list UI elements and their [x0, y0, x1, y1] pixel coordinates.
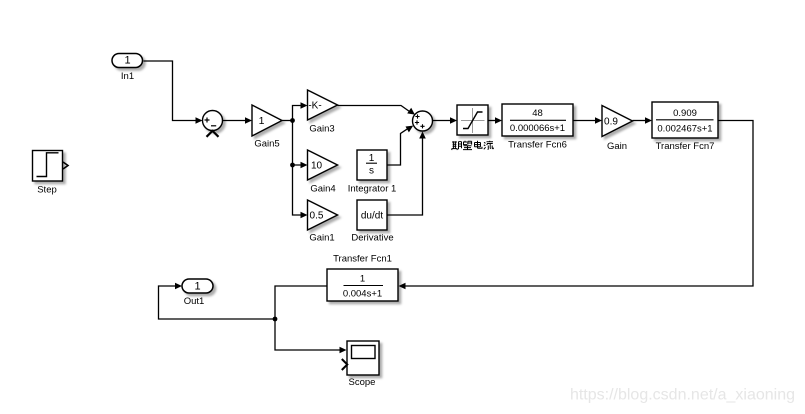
svg-text:10: 10 [311, 161, 323, 172]
svg-text:Transfer Fcn7: Transfer Fcn7 [656, 141, 715, 152]
svg-text:Gain1: Gain1 [309, 233, 334, 244]
svg-text:0.000066s+1: 0.000066s+1 [510, 123, 565, 134]
svg-text:1: 1 [259, 115, 265, 127]
svg-text:Gain: Gain [607, 141, 627, 152]
svg-text:1: 1 [369, 153, 375, 164]
svg-text:Transfer Fcn6: Transfer Fcn6 [508, 140, 567, 151]
svg-text:Gain3: Gain3 [309, 124, 334, 135]
svg-text:0.002467s+1: 0.002467s+1 [657, 124, 712, 135]
svg-text:1: 1 [194, 280, 200, 292]
svg-text:Scope: Scope [349, 377, 376, 388]
svg-text:https://blog.csdn.net/a_xiaoni: https://blog.csdn.net/a_xiaoning [570, 387, 795, 404]
svg-text:Gain4: Gain4 [310, 184, 335, 195]
svg-text:1: 1 [124, 54, 130, 66]
svg-text:Integrator 1: Integrator 1 [348, 184, 397, 195]
svg-text:In1: In1 [121, 71, 134, 82]
svg-text:1: 1 [360, 274, 365, 285]
svg-text:Step: Step [37, 185, 57, 196]
svg-text:0.909: 0.909 [673, 108, 697, 119]
svg-text:Out1: Out1 [184, 296, 205, 307]
svg-text:-K-: -K- [308, 101, 321, 112]
svg-text:0.5: 0.5 [310, 211, 324, 222]
svg-text:0.004s+1: 0.004s+1 [343, 289, 382, 300]
svg-text:Gain5: Gain5 [254, 139, 279, 150]
svg-text:s: s [369, 166, 374, 177]
svg-text:Derivative: Derivative [351, 233, 393, 244]
svg-text:Transfer Fcn1: Transfer Fcn1 [333, 254, 392, 265]
svg-text:0.9: 0.9 [604, 117, 618, 128]
svg-text:du/dt: du/dt [361, 211, 383, 222]
svg-text:48: 48 [532, 108, 543, 119]
